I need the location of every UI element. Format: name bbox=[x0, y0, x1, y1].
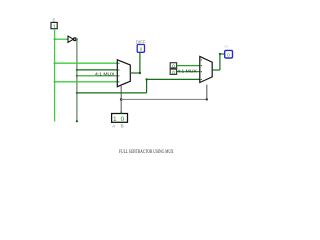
wire mux1 D0 bbox=[55, 62, 118, 64]
node select junction bbox=[120, 98, 123, 101]
node c-d3 junction bbox=[54, 81, 56, 83]
wire const2 to mux2 bbox=[177, 71, 200, 73]
svg-text:4:1 MUX: 4:1 MUX bbox=[177, 68, 197, 73]
node borrow jog corner bbox=[145, 78, 147, 80]
input pin const1 bbox=[170, 63, 176, 70]
node c-not junction bbox=[54, 38, 56, 40]
svg-text:1: 1 bbox=[113, 116, 117, 123]
wire c to NOT gate bbox=[54, 38, 68, 40]
svg-text:DIFF: DIFF bbox=[136, 39, 146, 44]
node not-d2 junction bbox=[76, 75, 78, 77]
node c-d0 junction bbox=[54, 62, 56, 64]
NOT gate U1 bbox=[66, 36, 78, 42]
wire const1 to mux2 bbox=[177, 65, 200, 67]
wire mux2 D3 horizontal bbox=[147, 78, 200, 80]
node mux1 output corner bbox=[139, 72, 141, 74]
wire mux1 D2 bbox=[77, 75, 117, 77]
wire borrow vertical jog bbox=[146, 79, 148, 93]
wire mux1 output horizontal bbox=[130, 72, 140, 74]
node not-d1 junction bbox=[76, 69, 78, 71]
output pin borrow bbox=[225, 50, 233, 58]
node NOT output end dot bbox=[76, 120, 78, 122]
node select corner dot bbox=[206, 98, 208, 100]
svg-text:FULL SUBTRACTOR USING MUX: FULL SUBTRACTOR USING MUX bbox=[119, 150, 174, 155]
svg-text:4:1 MUX: 4:1 MUX bbox=[95, 72, 115, 77]
wire mux1 D1 bbox=[77, 69, 117, 71]
input pin A B bbox=[112, 112, 128, 123]
svg-text:0: 0 bbox=[121, 116, 125, 123]
svg-text:0: 0 bbox=[172, 70, 175, 76]
wire mux2 select vertical bbox=[206, 85, 208, 100]
node mux2 output corner bbox=[219, 53, 221, 55]
wire mux1 D3 bbox=[55, 81, 118, 83]
input pin const2 bbox=[170, 69, 176, 76]
wire c vertical bbox=[54, 29, 56, 122]
wire select bus horizontal bbox=[121, 98, 207, 100]
output pin DIFF bbox=[137, 45, 144, 53]
wire mux2 output vertical bbox=[219, 54, 221, 70]
wire mux1 select vertical bbox=[120, 86, 122, 114]
op mux2 4:1 multiplexer bbox=[200, 56, 212, 82]
wire mux2 output horizontal bbox=[212, 69, 220, 71]
wire mux1 output vertical to DIFF bbox=[139, 52, 141, 73]
node not-borrow junction bbox=[76, 92, 78, 94]
wire to borrow pin bbox=[220, 53, 225, 55]
wire borrow low horizontal bbox=[77, 92, 147, 94]
svg-text:A B: A B bbox=[112, 124, 124, 129]
svg-text:bo: bo bbox=[225, 44, 229, 48]
wire NOT output vertical bbox=[76, 39, 78, 121]
input pin c bbox=[51, 22, 57, 30]
op mux1 4:1 multiplexer bbox=[117, 60, 130, 87]
